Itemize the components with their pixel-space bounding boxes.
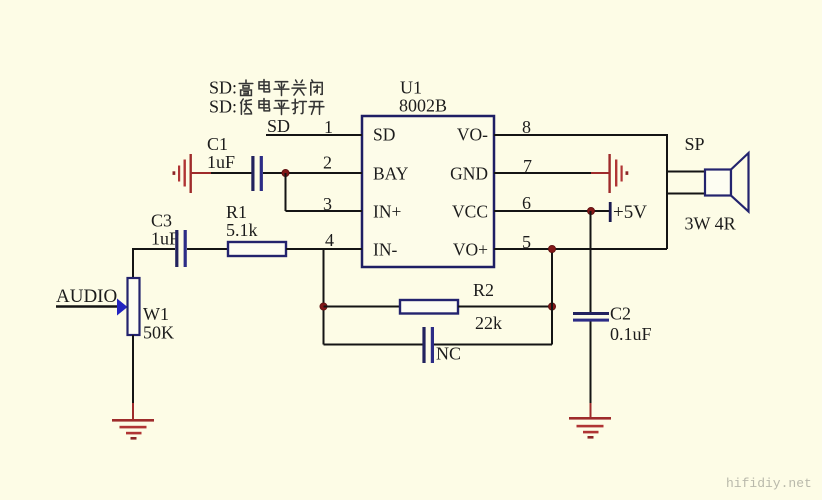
svg-text:SP: SP	[685, 134, 705, 154]
resistor R1	[228, 242, 286, 256]
speaker terminal wires	[667, 171, 706, 173]
wire feedback to R2	[324, 306, 401, 308]
wire pin 7	[494, 172, 592, 174]
potentiometer W1 body	[128, 278, 140, 335]
svg-text:R1: R1	[226, 202, 247, 222]
svg-text:1uF: 1uF	[207, 152, 235, 172]
capacitor NC	[422, 327, 434, 363]
capacitor C2	[573, 312, 609, 322]
wire pin 6	[494, 210, 609, 212]
wire NC branch right	[434, 344, 552, 346]
svg-text:C2: C2	[610, 304, 631, 324]
svg-text:VO-: VO-	[457, 125, 488, 145]
svg-text:IN-: IN-	[373, 240, 397, 260]
wire pin4 node down to feedback	[323, 249, 325, 345]
capacitor C3	[175, 230, 187, 267]
junction node (pin2/pin3 branch)	[282, 169, 289, 176]
capacitor C1	[251, 156, 263, 191]
wire pin 3	[286, 210, 363, 212]
svg-text:SD: SD	[267, 116, 290, 136]
svg-text:GND: GND	[450, 164, 488, 184]
wire NC branch left	[324, 344, 423, 346]
wire C1 to pin 2	[263, 172, 362, 174]
wire pot bottom to ground	[132, 335, 134, 404]
svg-text:0.1uF: 0.1uF	[610, 324, 652, 344]
junction node (pin 5)	[548, 245, 555, 252]
wire pot top to C3	[133, 249, 175, 278]
op-amp U1 8002B body	[362, 116, 494, 267]
wire ground to C1	[211, 172, 252, 174]
wire R2 to node	[458, 306, 552, 308]
wire pin 5	[494, 248, 667, 250]
svg-text:22k: 22k	[475, 313, 502, 333]
ground (under W1)	[112, 419, 154, 440]
svg-text:VCC: VCC	[452, 202, 488, 222]
svg-text:IN+: IN+	[373, 202, 401, 222]
annotation text line 1: SD:高电平关闭	[209, 78, 322, 98]
svg-text:SD:: SD:	[209, 78, 237, 98]
svg-text:SD: SD	[373, 125, 395, 145]
wire junction down	[285, 173, 287, 211]
svg-text:5.1k: 5.1k	[226, 220, 258, 240]
wire C3 to R1	[187, 248, 228, 250]
svg-text:7: 7	[523, 156, 532, 176]
svg-text:4: 4	[325, 230, 334, 250]
potentiometer W1 wiper arrow	[117, 299, 128, 316]
svg-text:SD:: SD:	[209, 97, 237, 117]
svg-text:5: 5	[522, 232, 531, 252]
junction node (feedback right)	[548, 303, 555, 310]
svg-text:3W 4R: 3W 4R	[685, 214, 736, 234]
svg-text:C3: C3	[151, 211, 172, 231]
svg-text:W1: W1	[143, 304, 169, 324]
ground (pin 7)	[591, 154, 628, 193]
resistor R2	[400, 300, 458, 314]
svg-text:+5V: +5V	[613, 202, 647, 223]
svg-text:50K: 50K	[143, 323, 174, 343]
wire AUDIO input	[56, 305, 118, 307]
svg-text:R2: R2	[473, 280, 494, 300]
svg-text:2: 2	[323, 153, 332, 173]
svg-text:6: 6	[522, 193, 531, 213]
svg-text:VO+: VO+	[453, 240, 488, 260]
svg-text:AUDIO: AUDIO	[56, 286, 117, 307]
svg-text:BAY: BAY	[373, 164, 409, 184]
svg-text:1uF: 1uF	[151, 229, 179, 249]
svg-text:U1: U1	[400, 78, 422, 98]
wire VCC down to C2	[590, 211, 592, 313]
wire C2 to ground	[590, 322, 592, 405]
svg-text:hifidiy.net: hifidiy.net	[726, 476, 812, 491]
svg-text:3: 3	[323, 194, 332, 214]
ground (under C2)	[569, 417, 611, 439]
wire pin 1	[266, 134, 362, 136]
annotation text line 2: SD:低电平打开	[209, 97, 324, 117]
power +5V bar	[609, 202, 612, 222]
svg-text:NC: NC	[436, 344, 461, 364]
ground (analog, left of C1)	[173, 154, 213, 193]
speaker SP	[705, 153, 749, 212]
svg-text:8: 8	[522, 117, 531, 137]
wire pin 8	[494, 135, 667, 249]
svg-text:C1: C1	[207, 134, 228, 154]
junction node (VCC)	[587, 207, 594, 214]
svg-text:8002B: 8002B	[399, 96, 447, 116]
junction node (feedback left)	[320, 303, 327, 310]
wire R1 to pin 4	[286, 248, 362, 250]
wire feedback right vertical	[551, 249, 553, 345]
